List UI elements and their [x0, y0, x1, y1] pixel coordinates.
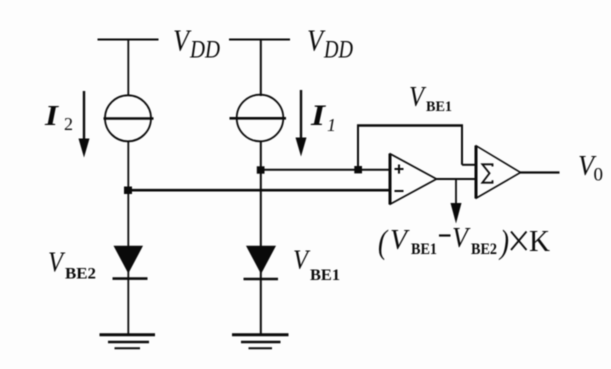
- wire current source I2 to diode D2 and ground: [127, 141, 129, 335]
- svg-text:DD: DD: [323, 37, 353, 64]
- wire VBE1 feedback (node C up, across, down to summer): [357, 125, 476, 170]
- svg-text:BE2: BE2: [471, 241, 497, 258]
- node A (left branch junction): [124, 187, 132, 195]
- node B (right branch junction): [257, 166, 265, 173]
- svg-text:(: (: [378, 224, 389, 261]
- current source I2: [104, 95, 154, 141]
- svg-text:BE2: BE2: [65, 266, 96, 283]
- VDD rail right: [229, 39, 290, 41]
- label VDD left: [173, 23, 220, 64]
- svg-text:V: V: [293, 245, 311, 275]
- svg-text:I: I: [310, 99, 327, 132]
- ground left: [100, 335, 156, 348]
- wire current source I1 to diode D1 and ground: [260, 141, 262, 335]
- svg-text:BE1: BE1: [411, 241, 437, 258]
- svg-text:2: 2: [64, 114, 73, 134]
- arrow I2: [79, 91, 90, 158]
- VDD rail left: [98, 39, 159, 41]
- svg-text:V: V: [307, 23, 326, 58]
- svg-text:DD: DD: [189, 37, 220, 64]
- summer sigma symbol: [482, 164, 492, 182]
- arrow I1: [296, 90, 307, 157]
- svg-text:V: V: [173, 23, 192, 58]
- svg-text:): ): [498, 224, 509, 261]
- diode D1: [244, 246, 279, 279]
- label I1: [310, 99, 336, 135]
- current source I1: [230, 95, 287, 142]
- wire op-amp output to summer: [437, 178, 477, 180]
- label (VBE1-VBE2)xK: [378, 222, 551, 261]
- wire summer output: [520, 171, 560, 173]
- wire node A to op-amp inverting input: [128, 189, 391, 192]
- op-amp minus pin: [395, 190, 404, 192]
- summer U2: [476, 146, 521, 199]
- svg-text:V: V: [390, 224, 410, 256]
- label VBE1 (feedback wire): [409, 81, 452, 115]
- svg-text:I: I: [44, 100, 60, 132]
- wire node B to op-amp non-inverting input: [261, 169, 390, 171]
- svg-text:V: V: [48, 247, 66, 279]
- wire VDD to current source I1: [260, 40, 262, 97]
- label VBE1 (diode): [293, 245, 340, 285]
- op-amp U1: [390, 154, 437, 205]
- diode D2: [113, 246, 148, 279]
- svg-text:V: V: [452, 222, 471, 254]
- op-amp plus pin: [395, 165, 404, 174]
- arrow tap on op-amp output: [451, 179, 462, 224]
- label I2: [44, 100, 73, 134]
- svg-text:0: 0: [594, 165, 604, 186]
- minus sign in formula: [439, 234, 451, 236]
- svg-text:V: V: [409, 81, 427, 113]
- label V0: [578, 150, 603, 186]
- label VDD right: [307, 23, 353, 64]
- label VBE2: [48, 247, 96, 283]
- wire VDD to current source I2: [127, 40, 129, 97]
- node C (feedback tap junction): [354, 166, 362, 173]
- svg-text:BE1: BE1: [426, 99, 452, 115]
- svg-text:1: 1: [327, 115, 336, 135]
- svg-text:K: K: [529, 223, 551, 258]
- multiply sign in formula: [511, 232, 527, 251]
- ground right: [232, 335, 289, 348]
- svg-text:BE1: BE1: [310, 267, 340, 284]
